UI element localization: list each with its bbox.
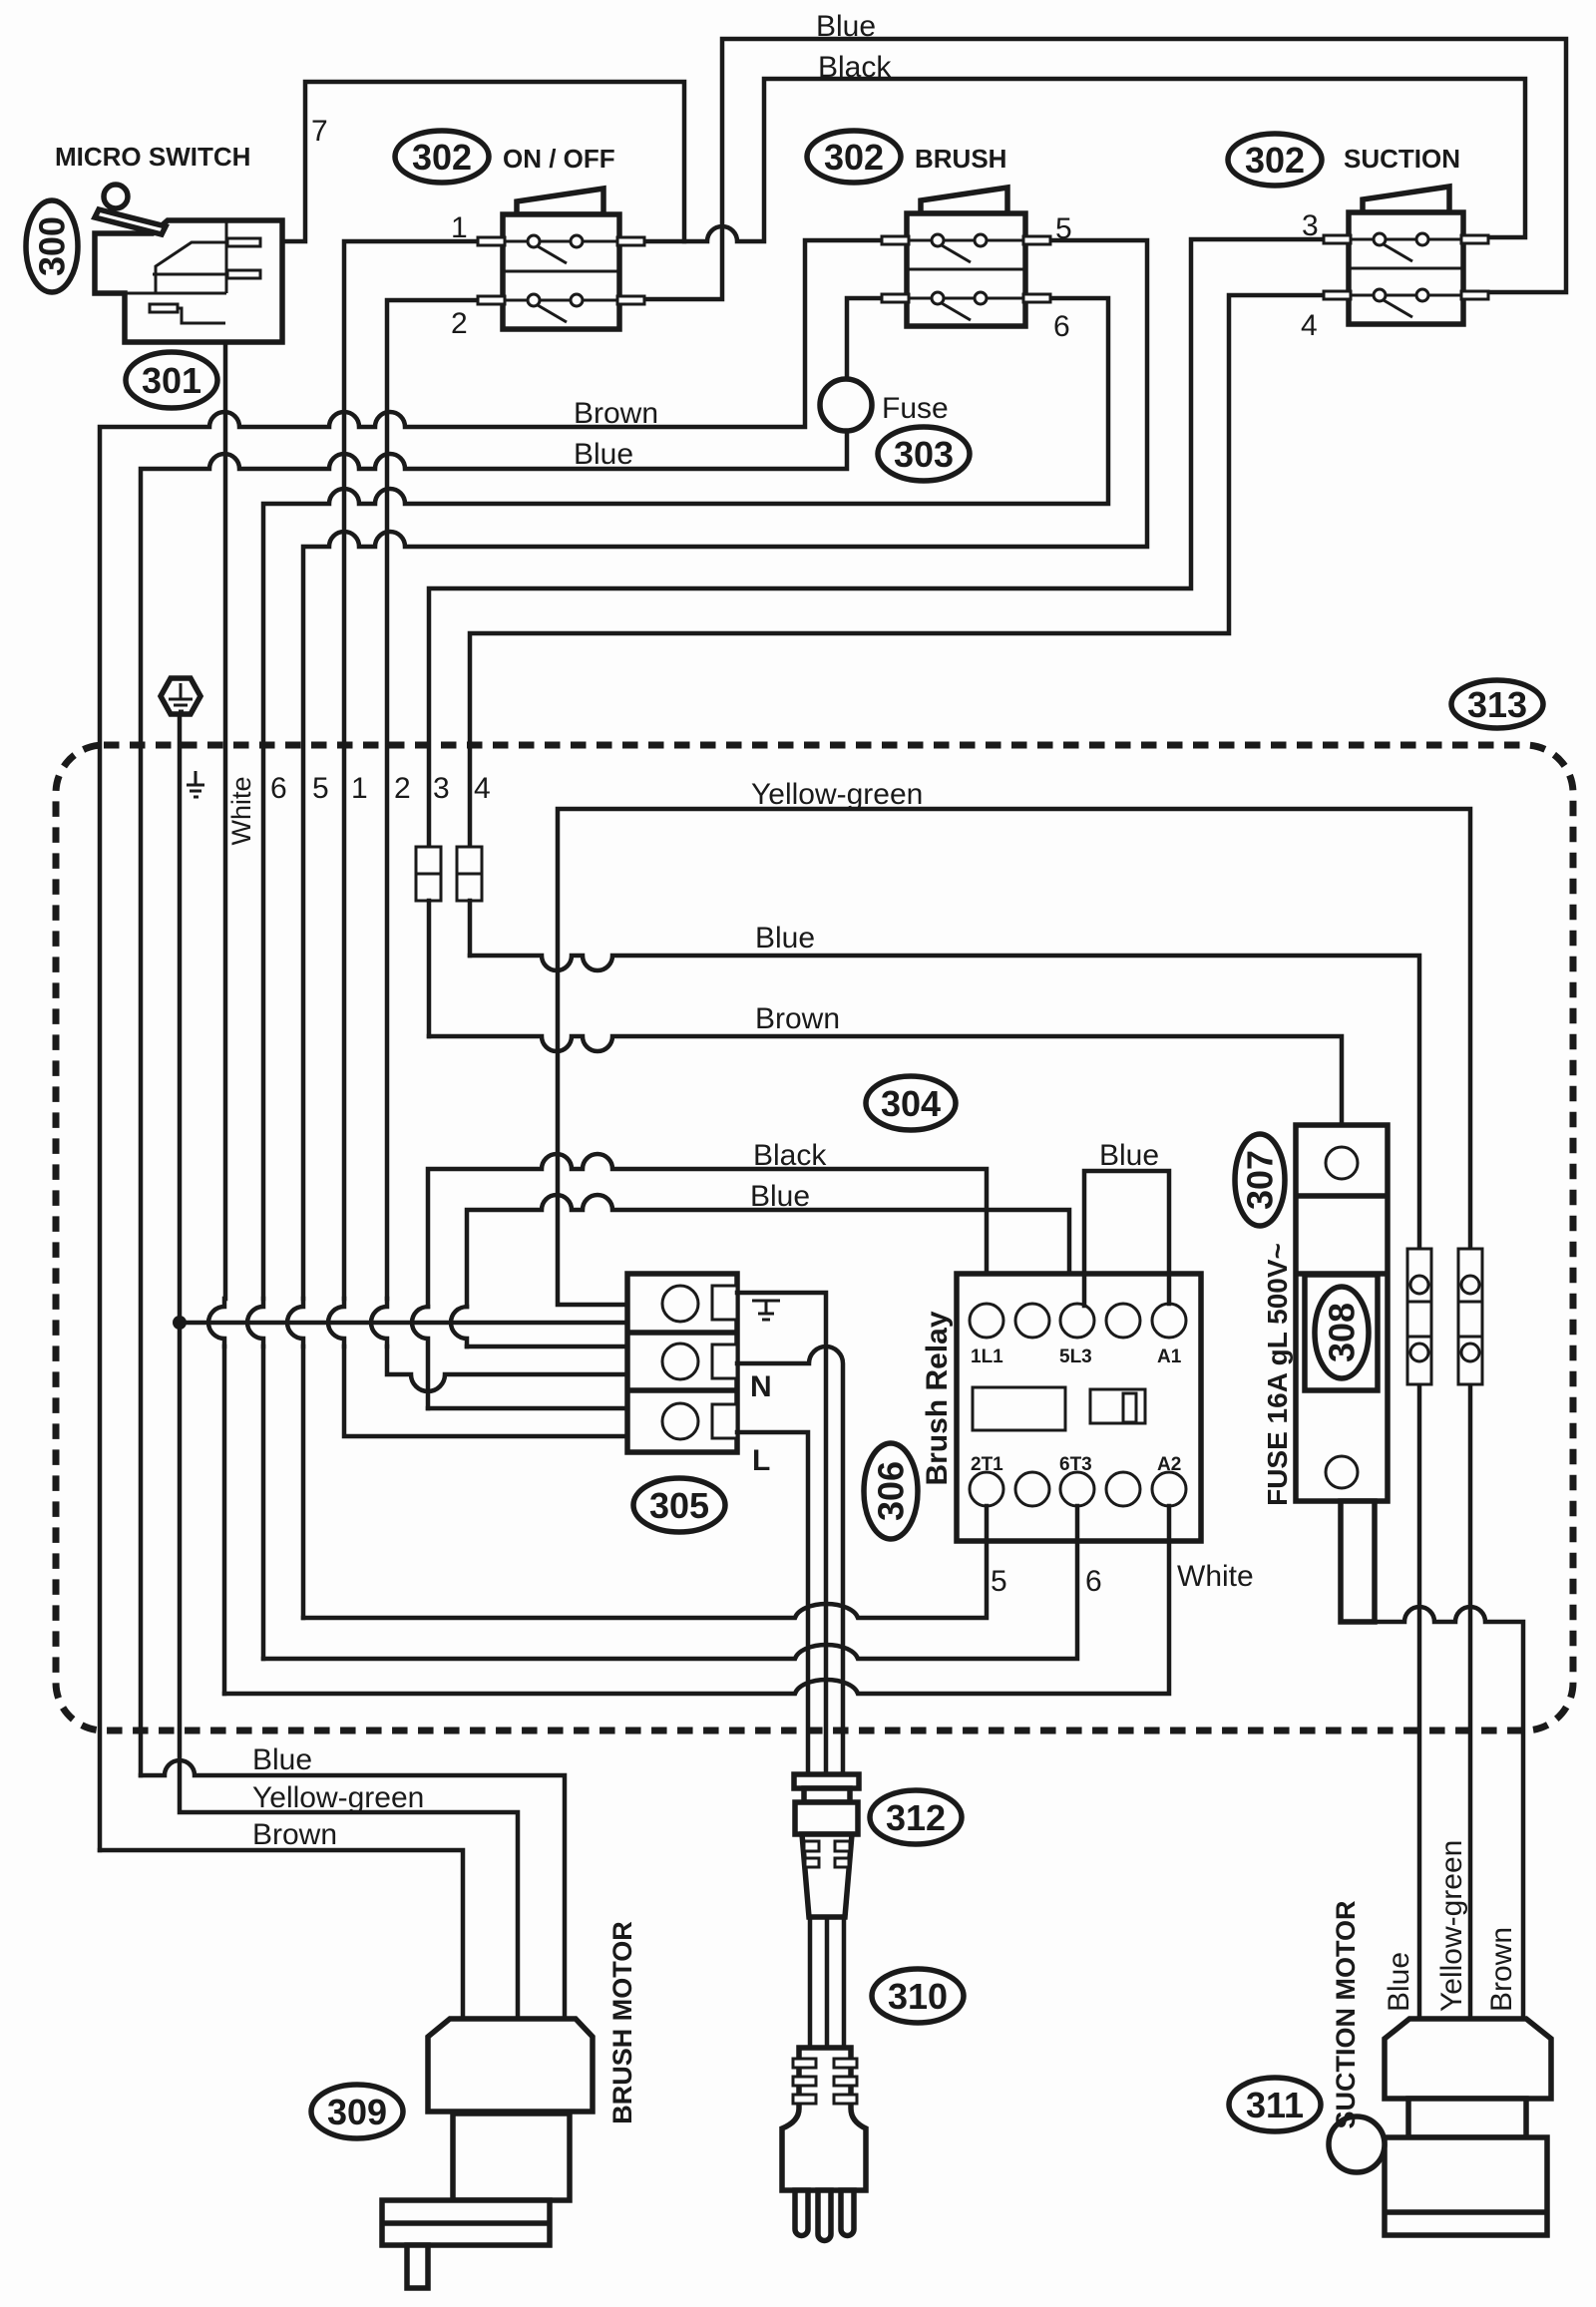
cable connector 312 — [794, 1774, 859, 1917]
micro switch roller lever — [95, 209, 166, 234]
wire Black: from L column up corner across to relay 1L1 — [428, 1154, 987, 1307]
wire Blue (upper left): BRUSH pin6 left via fuse, across with hops, down left side — [141, 298, 884, 1775]
wire N from block hop over earth then down to plug — [737, 1346, 843, 1774]
wire net2: ON/OFF pin2 left down into box — [387, 300, 478, 1299]
relay coil box — [973, 1387, 1065, 1430]
wire net5: BRUSH pin5 right, down, across to column 5 — [303, 240, 1147, 1299]
switch BRUSH S302b — [882, 188, 1050, 326]
svg-text:1L1: 1L1 — [971, 1346, 1003, 1367]
switch SUCTION S302c — [1324, 187, 1488, 324]
oval 312 — [870, 1790, 962, 1844]
oval 302 (BRUSH) — [807, 131, 901, 183]
wire L from block down to plug — [737, 1432, 808, 1774]
terminal block clamp N — [712, 1345, 737, 1378]
svg-text:L: L — [752, 1444, 770, 1477]
wire White: micro switch bottom down into box — [223, 342, 228, 1299]
svg-text:Black: Black — [753, 1139, 827, 1172]
oval 304 — [866, 1076, 956, 1130]
wire Brown (to fuse 307): from net3 across to fuse top — [429, 1036, 1342, 1125]
fuse cartridge 308 — [1305, 1275, 1378, 1390]
brush motor M309 — [382, 2019, 593, 2288]
svg-text:2T1: 2T1 — [971, 1454, 1003, 1475]
wire jog net6 over manifold — [247, 1299, 263, 1346]
connector on suction Yellow-green wire — [1458, 1249, 1482, 1384]
oval 308 — [1315, 1287, 1369, 1378]
svg-text:BRUSH MOTOR: BRUSH MOTOR — [607, 1921, 637, 2124]
svg-text:305: 305 — [649, 1485, 709, 1526]
switch pin stubs overlay — [478, 235, 1488, 304]
wire jog net5 over manifold — [287, 1299, 303, 1346]
wire relay 2T1 output to column 5 — [303, 1506, 987, 1618]
svg-text:Brown: Brown — [574, 397, 658, 430]
svg-text:3: 3 — [433, 772, 450, 805]
label earth glyph at terminal block — [752, 1301, 780, 1320]
wire net3 below connector to Brown feed — [427, 901, 432, 1036]
svg-text:6T3: 6T3 — [1059, 1454, 1092, 1475]
micro switch pin 1 — [227, 238, 260, 246]
wire net6: BRUSH pin6 right, down, across to column 6 — [263, 298, 1108, 1299]
svg-text:2: 2 — [451, 307, 468, 340]
oval 311 — [1229, 2078, 1321, 2131]
wire jog White column over manifold — [208, 1299, 224, 1346]
svg-text:301: 301 — [142, 360, 201, 401]
svg-text:Blue: Blue — [1383, 1952, 1415, 2012]
relay contact circles top — [970, 1304, 1003, 1338]
wire net6 column continues down — [261, 1346, 266, 1659]
oval 313 — [1451, 680, 1543, 728]
svg-text:Blue: Blue — [755, 922, 815, 955]
svg-text:SUCTION MOTOR: SUCTION MOTOR — [1331, 1901, 1361, 2129]
terminal block clamp earth — [712, 1286, 737, 1320]
svg-text:5L3: 5L3 — [1059, 1346, 1092, 1367]
oval 303 — [878, 427, 970, 481]
svg-text:302: 302 — [1245, 140, 1305, 181]
wire Blue (to relay 5L3): from N row up corner across — [467, 1195, 1069, 1307]
oval 300 — [26, 200, 78, 292]
svg-text:Blue: Blue — [252, 1743, 312, 1776]
svg-text:5: 5 — [312, 772, 329, 805]
wire 7: micro switch pin to ON/OFF pin1 loop — [283, 82, 684, 241]
svg-text:1: 1 — [351, 772, 368, 805]
fuse F303 circle — [820, 379, 872, 431]
wire White column continues down — [222, 1346, 227, 1694]
svg-text:ON / OFF: ON / OFF — [503, 144, 615, 174]
svg-text:7: 7 — [311, 115, 328, 148]
oval 306 — [864, 1443, 918, 1539]
wire net3: SUCTION pin3 left, down, across to column 3 — [429, 239, 1326, 847]
svg-text:White: White — [1177, 1560, 1254, 1593]
terminal block 305 body — [627, 1274, 737, 1452]
svg-text:302: 302 — [412, 137, 472, 178]
wire jog net2 over manifold — [371, 1299, 387, 1346]
svg-text:SUCTION: SUCTION — [1344, 144, 1460, 174]
svg-text:310: 310 — [888, 1976, 948, 2017]
svg-text:2: 2 — [394, 772, 411, 805]
wire junction manifold: earth dot across to terminal block — [180, 1321, 627, 1326]
micro switch SW300 body — [95, 185, 282, 342]
oval 302 (SUCTION) — [1228, 134, 1322, 186]
junction dot — [173, 1316, 187, 1330]
wire jog net1 over manifold — [328, 1299, 344, 1346]
svg-text:300: 300 — [32, 216, 73, 276]
svg-text:Brown: Brown — [755, 1002, 840, 1035]
wire jog Black over manifold — [412, 1307, 428, 1408]
svg-text:Yellow-green: Yellow-green — [1435, 1840, 1468, 2012]
wire Blue bridge 5L3 to A1 — [1084, 1171, 1169, 1306]
svg-text:303: 303 — [894, 434, 954, 475]
wire jog Blue-relay over manifold — [451, 1307, 467, 1346]
wire Brown from fuse to suction motor — [1358, 1607, 1523, 2019]
svg-text:6: 6 — [1085, 1565, 1102, 1598]
terminal block clamp L — [712, 1404, 737, 1438]
svg-text:Blue: Blue — [816, 10, 876, 43]
wire net1 into L row — [344, 1346, 627, 1436]
relay contact circles bottom — [970, 1472, 1003, 1506]
svg-text:Blue: Blue — [750, 1180, 810, 1213]
oval 301 — [126, 352, 217, 408]
svg-text:308: 308 — [1322, 1303, 1363, 1362]
oval 309 — [311, 2085, 403, 2138]
connector on net3 — [416, 847, 441, 901]
svg-text:6: 6 — [270, 772, 287, 805]
suction motor M311 — [1329, 2019, 1551, 2235]
svg-text:N: N — [750, 1370, 772, 1403]
switch ON/OFF S302a — [478, 189, 644, 329]
power plug 310 — [782, 2048, 866, 2241]
connector on net4 — [457, 847, 482, 901]
oval 307 — [1235, 1134, 1285, 1226]
svg-text:5: 5 — [991, 1565, 1007, 1598]
oval 305 — [633, 1478, 725, 1532]
svg-text:306: 306 — [871, 1461, 912, 1521]
wire net2 into N row with down-hop over Black — [387, 1346, 627, 1391]
svg-text:Blue: Blue — [1099, 1139, 1159, 1172]
svg-text:6: 6 — [1053, 310, 1070, 343]
svg-text:302: 302 — [824, 137, 884, 178]
wire net4: SUCTION pin4 left, down, across to column 4 — [470, 295, 1326, 847]
svg-text:4: 4 — [474, 772, 491, 805]
fuse bottom stub — [1341, 1501, 1375, 1622]
svg-text:307: 307 — [1240, 1150, 1281, 1210]
ground symbol (earth at top of box) — [161, 678, 200, 714]
relay switch box — [1090, 1389, 1145, 1423]
terminal block screw L — [662, 1403, 698, 1439]
micro switch pin 2 — [227, 270, 260, 278]
wire Black into L row upper — [428, 1406, 627, 1411]
wire net1: ON/OFF pin1 left down into box — [344, 241, 478, 1299]
wire relay A2 output to White column — [224, 1506, 1169, 1694]
svg-text:304: 304 — [881, 1083, 941, 1124]
fuse holder 307 body — [1296, 1125, 1388, 1501]
connector on suction Blue wire — [1407, 1249, 1431, 1384]
oval 310 — [872, 1969, 964, 2023]
svg-text:A1: A1 — [1157, 1346, 1182, 1367]
svg-text:Yellow-green: Yellow-green — [751, 778, 923, 811]
svg-text:MICRO SWITCH: MICRO SWITCH — [55, 142, 250, 172]
svg-text:4: 4 — [1301, 309, 1318, 342]
svg-text:White: White — [226, 776, 256, 845]
wire Blue: ON/OFF pin2 right, up across top, down to SUCTION pin4 — [644, 39, 1566, 299]
dashed enclosure 313 — [56, 745, 1573, 1730]
wire earth from block to plug — [737, 1293, 826, 1774]
svg-text:313: 313 — [1467, 684, 1527, 725]
wire net4 below connector to Blue feed — [468, 901, 473, 956]
svg-text:BRUSH: BRUSH — [915, 144, 1006, 174]
cable to plug — [810, 1917, 844, 2050]
relay K306 body — [957, 1274, 1201, 1541]
wire Blue (to suction motor): from net4 across to right vertical — [470, 956, 1419, 2019]
wire earth: from ground symbol down to junction — [178, 715, 183, 1323]
wire Brown to brush motor — [100, 1850, 463, 2021]
wire Yellow-green to brush motor — [180, 1323, 518, 2021]
svg-text:309: 309 — [327, 2092, 387, 2132]
wire Yellow-green: down from horizontal to terminal block earth row — [558, 809, 1470, 2019]
svg-text:312: 312 — [886, 1797, 946, 1838]
micro switch contact arm — [156, 242, 227, 292]
svg-text:Brown: Brown — [252, 1818, 337, 1851]
svg-text:Black: Black — [818, 51, 892, 84]
wire net5 column continues down — [301, 1346, 306, 1618]
svg-text:A2: A2 — [1157, 1454, 1181, 1475]
terminal block screw N — [662, 1344, 698, 1379]
label earth glyph (column) — [187, 771, 204, 797]
svg-text:Blue: Blue — [574, 438, 633, 471]
wire Blue-relay into N row upper — [467, 1345, 627, 1349]
svg-text:Fuse: Fuse — [882, 392, 949, 425]
svg-text:FUSE 16A gL 500V~: FUSE 16A gL 500V~ — [1262, 1243, 1293, 1506]
svg-text:311: 311 — [1246, 2085, 1304, 2125]
svg-text:Brown: Brown — [1485, 1927, 1518, 2012]
wire relay 6T3 output to column 6 — [263, 1506, 1077, 1659]
oval 302 (ON/OFF) — [395, 131, 489, 183]
wire Brown (upper left): BRUSH pin5 left, down, across with hops, down left side to brush motor — [100, 240, 884, 1850]
wire Black: ON/OFF pin1 right, hop over Blue vertical, up across, down to SUCTION pin3 — [644, 79, 1525, 241]
terminal block screw earth — [662, 1286, 698, 1322]
svg-text:Yellow-green: Yellow-green — [252, 1781, 424, 1814]
micro switch pin 3 — [150, 304, 178, 312]
wire Blue to brush motor — [141, 1760, 565, 2021]
svg-text:Brush Relay: Brush Relay — [921, 1311, 954, 1485]
